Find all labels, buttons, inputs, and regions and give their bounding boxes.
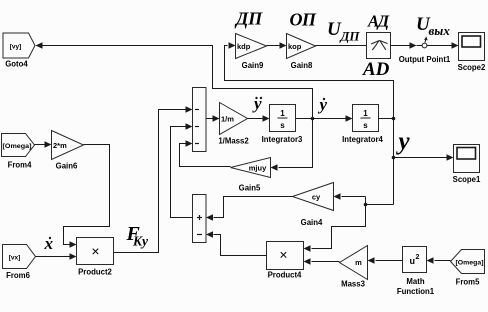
gain 1/Mass2 (1/m): [218, 103, 249, 146]
sum block Sum1: [193, 88, 207, 152]
svg-text:y: y: [396, 128, 411, 155]
svg-text:Integrator4: Integrator4: [342, 135, 383, 144]
svg-text:s: s: [280, 121, 285, 130]
svg-text:Gain9: Gain9: [242, 61, 264, 70]
wire Gain9 to Gain8: [267, 42, 287, 48]
svg-text:ДП: ДП: [340, 29, 361, 44]
svg-text:y: y: [252, 94, 262, 113]
wire Product4 output to Sum2 minus input: [206, 231, 267, 255]
integrator block Integrator4: [342, 105, 383, 145]
svg-text:Function1: Function1: [397, 287, 435, 296]
gain Mass3 (m): [340, 246, 368, 289]
svg-text:AD: AD: [362, 59, 390, 80]
label ẏ: [318, 95, 328, 114]
label F_Ky: [126, 223, 150, 249]
wire Gain6 to Product2 input1: [64, 145, 110, 248]
label ÿ: [252, 94, 262, 113]
svg-text:Scope1: Scope1: [453, 175, 481, 184]
svg-text:Ky: Ky: [132, 234, 149, 249]
node junction y at (393,157): [392, 156, 396, 160]
svg-text:[Omega]: [Omega]: [3, 143, 32, 150]
svg-text:ОП: ОП: [290, 10, 317, 30]
svg-text:АД: АД: [367, 12, 390, 31]
svg-text:u: u: [410, 256, 416, 266]
svg-text:1/m: 1/m: [221, 115, 234, 124]
node junction ẏ at (312,118): [311, 117, 315, 121]
wire Product2 output (F_Ky) to Sum1 input1: [114, 106, 193, 252]
svg-text:Gain6: Gain6: [56, 162, 78, 171]
gain Gain6 (2*m): [52, 131, 84, 171]
svg-text:вых: вых: [429, 23, 451, 38]
product block Product4: [267, 242, 304, 280]
svg-text:Math: Math: [406, 277, 424, 286]
block AD (amplitude detector): [367, 33, 391, 59]
goto block Goto4: [3, 33, 35, 69]
svg-text:[Omega]: [Omega]: [456, 260, 484, 267]
product block Product2: [77, 238, 114, 277]
from block From5: [451, 250, 485, 287]
svg-text:y: y: [318, 95, 328, 114]
svg-text:cy: cy: [312, 193, 321, 202]
block Math Function1 (u^2): [397, 247, 435, 297]
svg-text:Product2: Product2: [78, 268, 112, 277]
wire Integrator3 to Integrator4 (ẏ): [296, 115, 353, 121]
wire y to Scope1: [394, 154, 454, 160]
svg-text:2: 2: [416, 254, 420, 261]
svg-text:[vx]: [vx]: [9, 255, 21, 262]
svg-text:kdp: kdp: [237, 42, 251, 51]
svg-text:kop: kop: [288, 42, 302, 51]
svg-text:Gain5: Gain5: [239, 184, 261, 193]
svg-text:1: 1: [363, 109, 368, 118]
svg-text:m: m: [355, 258, 362, 267]
wire Gain4 output to Sum2 plus input: [206, 197, 293, 221]
svg-text:Gain8: Gain8: [291, 61, 313, 70]
svg-text:From4: From4: [8, 161, 32, 170]
wire 1/Mass2 to Integrator3: [248, 115, 270, 121]
svg-text:×: ×: [91, 243, 99, 259]
svg-text:ДП: ДП: [234, 9, 263, 29]
gain Gain9 (kdp): [236, 34, 267, 71]
from block From4: [2, 134, 35, 170]
wire vy: Goto4 to ẏ junction (via mjuy input): [36, 42, 313, 170]
svg-text:From6: From6: [6, 271, 30, 280]
svg-text:×: ×: [279, 247, 287, 263]
svg-text:Integrator3: Integrator3: [262, 135, 303, 144]
label U_вых: [416, 14, 450, 38]
sum block Sum2: [193, 195, 207, 243]
gain Gain8 (kop): [287, 34, 316, 71]
wire Output Point1 to Scope2: [427, 42, 459, 48]
svg-text:Mass3: Mass3: [341, 280, 366, 289]
svg-text:Scope2: Scope2: [458, 63, 486, 72]
svg-text:[vy]: [vy]: [10, 44, 22, 51]
wire Math Function1 output to Mass3: [368, 257, 403, 263]
label ẋ: [44, 234, 54, 253]
svg-text:1: 1: [280, 109, 285, 118]
svg-text:Gain4: Gain4: [301, 218, 323, 227]
svg-text:2*m: 2*m: [53, 141, 67, 150]
wire Integrator4 output y trunk: up to Gain9(ДП) input: [225, 42, 394, 204]
wire From4 to Gain6: [35, 141, 52, 147]
label U_ДП: [327, 19, 360, 44]
node junction y at (393,118): [392, 117, 396, 121]
wire AD to Output Point1: [391, 42, 423, 48]
node junction at (365,204): [364, 203, 368, 207]
from block From6: [3, 245, 36, 281]
integrator block Integrator3: [262, 105, 303, 145]
gain Gain5 (mjuy): [231, 158, 271, 193]
gain Gain4 (cy): [293, 183, 334, 228]
wire Gain5 output to Sum1 input3: [180, 140, 231, 166]
svg-text:x: x: [44, 234, 54, 253]
wire Mass3 output to Product4 input2: [304, 258, 340, 264]
svg-text:Goto4: Goto4: [5, 60, 28, 69]
svg-text:Output Point1: Output Point1: [399, 55, 451, 64]
wire Sum1 output to 1/Mass2: [206, 115, 220, 121]
svg-text:s: s: [363, 121, 368, 130]
svg-text:From5: From5: [456, 278, 480, 287]
scope block Scope2: [458, 33, 486, 73]
svg-text:1/Mass2: 1/Mass2: [218, 137, 249, 146]
node Output Point1: [399, 37, 451, 65]
wire Sum2 output to Sum1 input2: [171, 123, 193, 217]
scope block Scope1: [453, 145, 481, 185]
svg-text:Product4: Product4: [268, 271, 302, 280]
wire Gain8 to AD block (U_ДП): [316, 45, 367, 47]
wire From6 to Product2 input2 (ẋ): [36, 253, 77, 259]
svg-text:mjuy: mjuy: [249, 164, 267, 173]
wire From5 to Math Function1: [427, 257, 451, 263]
wire y branch to Gain4 and Product4: [304, 193, 394, 251]
